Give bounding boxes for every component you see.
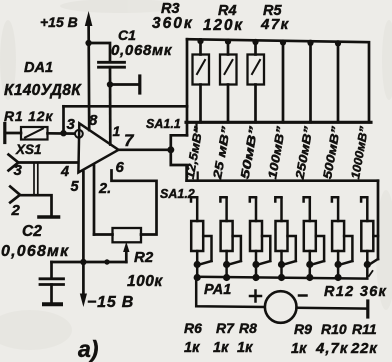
wire contact 5 to R10 xyxy=(309,198,312,221)
wire contact 2 to R7 xyxy=(225,198,228,221)
wire R6 side tap xyxy=(203,236,211,261)
svg-text:3: 3 xyxy=(67,116,76,133)
resistor R5 xyxy=(248,55,265,85)
node bus dot col4 xyxy=(280,39,286,45)
wire riser from compensation line through SA1.1 bar to wiper xyxy=(186,106,189,135)
wire R3 bottom to SA1.1 bar xyxy=(199,85,202,123)
wire column 4 bus to bar xyxy=(282,41,285,123)
wire bus left drop xyxy=(186,39,189,106)
resistor R3 leads xyxy=(199,39,202,54)
svg-text:7: 7 xyxy=(124,131,135,150)
wire R7 side tap xyxy=(233,236,241,261)
node junction dot R9 bottom xyxy=(278,261,285,268)
svg-text:С2: С2 xyxy=(22,223,42,240)
connector XS1 pin 2 arrow xyxy=(10,187,20,203)
tick near R12 bus end xyxy=(369,271,373,276)
wire SA1.1 wiper from output node xyxy=(171,135,187,150)
wire R6 bottom to bus xyxy=(196,251,199,278)
wire R8 side tap xyxy=(262,236,270,261)
meter PA1 xyxy=(265,291,297,323)
ground bar under C2 xyxy=(44,302,61,306)
wire compensation line (pins 1,8) xyxy=(64,105,188,108)
wire op-amp pin5 / -15V rail xyxy=(82,172,85,296)
resistor R10 xyxy=(304,221,316,251)
wire R2 left lead xyxy=(94,233,113,236)
node junction dot R6 bottom xyxy=(194,261,201,268)
switch SA1.2 contact 2 xyxy=(220,197,226,201)
svg-text:360к: 360к xyxy=(152,15,194,32)
node junction dot at +15 rail / C1 branch xyxy=(85,40,91,46)
wire contact 1 to R6 xyxy=(196,198,199,221)
resistor R8 xyxy=(250,221,262,251)
capacitor C1 xyxy=(99,62,125,67)
op-amp U1 triangle xyxy=(78,123,118,172)
wire XS1 pin3 to op-amp noninverting input xyxy=(18,161,78,164)
resistor R3 xyxy=(193,55,210,85)
svg-text:6: 6 xyxy=(116,159,125,176)
switch SA1.1 position labels (rotated) xyxy=(183,125,371,181)
wire meter loop left drop xyxy=(196,277,265,307)
wire double link upper-lower input line (right) xyxy=(37,163,39,196)
node bus dot col5 xyxy=(307,40,313,46)
terminal bar at end of stub xyxy=(138,76,141,93)
resistor R12 xyxy=(361,221,373,251)
meter minus sign xyxy=(299,294,307,297)
svg-text:R11: R11 xyxy=(352,321,377,337)
wire contact 6 to R11 xyxy=(337,198,340,221)
wire meter right lead xyxy=(297,307,368,310)
node +15V arrow xyxy=(85,11,93,26)
svg-text:1к: 1к xyxy=(237,340,253,356)
wire R1 right lead to inverting input xyxy=(48,132,75,135)
svg-text:4: 4 xyxy=(60,164,69,180)
switch SA1.1 contact bar xyxy=(186,121,371,124)
wire XS1 pin2 line xyxy=(20,195,52,215)
svg-text:2.: 2. xyxy=(98,181,111,197)
terminal bar at pin2 wire end xyxy=(39,215,59,219)
wire R10 bottom to bus xyxy=(309,251,312,278)
resistor R6 xyxy=(191,221,203,251)
node junction dot R10 bottom xyxy=(306,261,313,268)
resistor R2 (potentiometer body) xyxy=(113,228,142,242)
wire R11 bottom to bus xyxy=(337,251,340,278)
svg-text:120к: 120к xyxy=(203,17,244,34)
wire contact 7 to R12 xyxy=(366,198,369,221)
resistor R5 leads xyxy=(254,40,257,54)
resistor R11 xyxy=(332,221,344,251)
wire op-amp pin2 down to R2 left xyxy=(93,166,96,235)
wire R9 side tap diagonal xyxy=(284,261,296,265)
wire SA1.2 common right drop xyxy=(377,181,380,259)
wire R10 side tap xyxy=(316,236,324,261)
switch SA1.2 common line xyxy=(187,179,378,182)
switch SA1.2 contact 5 xyxy=(304,197,310,201)
wire C1 bottom down to compensation line and pin 1 of op-amp xyxy=(109,67,112,144)
svg-text:1к: 1к xyxy=(291,341,307,357)
node bus dot col3 xyxy=(252,39,258,45)
svg-text:РА1: РА1 xyxy=(204,282,231,298)
switch SA1.2 contact 1 xyxy=(191,197,197,201)
svg-text:С1: С1 xyxy=(118,27,136,43)
svg-text:100к: 100к xyxy=(127,273,163,290)
wire bottom horizontal C2/rail/wiper xyxy=(52,261,127,264)
meter plus sign xyxy=(250,295,261,298)
resistor R4 diagonal xyxy=(225,60,233,74)
R2 wiper arrow xyxy=(123,242,129,252)
wire contact 4 to R9 xyxy=(280,198,283,221)
wire R8 side tap diagonal xyxy=(258,261,270,265)
svg-text:1к: 1к xyxy=(184,340,200,356)
wire +15V rail down to op-amp top edge xyxy=(87,22,90,130)
svg-text:R2: R2 xyxy=(134,249,154,266)
svg-text:3: 3 xyxy=(14,162,23,179)
switch SA1.2 contact 7 xyxy=(361,197,367,201)
svg-text:0,068мк: 0,068мк xyxy=(111,42,173,59)
node -15V arrow xyxy=(80,294,87,308)
wire R11 side tap xyxy=(344,236,352,261)
node junction dot R8 bottom xyxy=(252,261,259,268)
svg-text:1к: 1к xyxy=(213,340,229,356)
svg-text:2: 2 xyxy=(11,202,21,219)
resistor R4 leads xyxy=(227,40,230,55)
node junction dot R7 bus xyxy=(223,274,230,281)
svg-text:R10: R10 xyxy=(321,321,347,337)
wire R9 side tap xyxy=(288,236,296,261)
svg-text:R9: R9 xyxy=(294,321,312,337)
switch SA1.2 wiper path from output node xyxy=(171,150,187,181)
op-amp input bubble xyxy=(75,130,83,138)
wire vertical from compensation line down to R1 node xyxy=(62,106,65,133)
wire R12 side tap diagonal xyxy=(369,259,378,265)
node junction dot R12 bottom xyxy=(364,261,371,268)
svg-text:SA1.1: SA1.1 xyxy=(146,117,181,131)
svg-text:R6: R6 xyxy=(184,320,202,336)
svg-text:22к: 22к xyxy=(350,340,378,357)
switch SA1.1 wiper tick xyxy=(195,122,197,131)
svg-text:DA1: DA1 xyxy=(24,60,53,76)
svg-text:5: 5 xyxy=(71,179,80,195)
wire R8 bottom to bus xyxy=(255,251,258,278)
wire R10 side tap diagonal xyxy=(312,261,324,265)
svg-text:4,7к: 4,7к xyxy=(315,340,349,357)
wire R4 bottom to SA1.1 bar xyxy=(227,85,230,123)
capacitor C2 xyxy=(40,279,64,285)
wire column 5 bus to bar xyxy=(309,41,312,122)
node junction dot on bottom wire xyxy=(104,259,109,264)
svg-text:0,068мк: 0,068мк xyxy=(1,243,69,260)
svg-text:R7: R7 xyxy=(216,320,235,336)
node bus dot col2 xyxy=(225,39,231,45)
node junction dot R11 bottom xyxy=(335,261,342,268)
wire contact 3 to R8 xyxy=(255,198,258,221)
node output junction dot xyxy=(167,146,174,153)
wire double link upper-lower input line (left) xyxy=(33,163,35,196)
wire meter bus xyxy=(196,277,367,279)
node junction dot R7 bottom xyxy=(223,261,230,268)
switch SA1.2 wiper tick xyxy=(197,173,199,181)
svg-text:а): а) xyxy=(78,336,98,362)
resistor R1 terminal bar xyxy=(3,124,6,143)
switch SA1.2 contact 6 xyxy=(332,197,338,201)
wire column 6 bus to bar xyxy=(337,42,340,123)
node junction dot R8 bus xyxy=(252,274,259,281)
svg-text:−15 В: −15 В xyxy=(87,294,134,311)
wire stub right from C1 bottom junction xyxy=(110,83,140,86)
node bus dot col1 xyxy=(197,38,203,44)
wire from +15 rail to C1 xyxy=(89,43,110,62)
svg-text:К140УД8К: К140УД8К xyxy=(4,82,82,99)
wire R12 side tap xyxy=(373,235,378,238)
node junction dot R11 bus xyxy=(335,274,342,281)
wire op-amp output xyxy=(119,148,172,151)
svg-text:1: 1 xyxy=(113,123,121,139)
resistor R7 xyxy=(221,221,233,251)
wire R7 side tap diagonal xyxy=(229,261,241,265)
wire R9 bottom to bus xyxy=(280,251,283,278)
wire C2 bottom lead xyxy=(50,285,53,303)
svg-text:R12 36к: R12 36к xyxy=(324,284,387,300)
node junction dot R6 bus xyxy=(194,274,201,281)
wire C2 top lead xyxy=(50,262,53,278)
connector XS1 pin 3 arrow xyxy=(9,155,19,171)
svg-text:+15 В: +15 В xyxy=(40,14,78,30)
wire R6 side tap diagonal xyxy=(200,261,212,265)
switch SA1.2 contact 3 xyxy=(250,197,256,201)
svg-text:XS1: XS1 xyxy=(15,142,42,157)
wire R2 right lead and feedback loop to pin 6 xyxy=(112,171,157,235)
svg-text:47к: 47к xyxy=(260,16,290,33)
wire top feedback bus xyxy=(187,39,369,122)
resistor R9 xyxy=(276,221,288,251)
node junction dot R9 bus xyxy=(278,274,285,281)
node junction dot C1 bottom xyxy=(107,81,113,87)
wire R5 bottom to SA1.1 bar xyxy=(254,85,257,123)
resistor R1 xyxy=(21,127,48,140)
resistor R1 diagonal mark xyxy=(25,129,43,138)
svg-text:8: 8 xyxy=(89,112,98,129)
node junction dot R1 / compensation branch xyxy=(60,130,66,136)
svg-text:SA1.2: SA1.2 xyxy=(160,187,195,201)
node bus dot col6 xyxy=(335,40,341,46)
svg-text:R1 12к: R1 12к xyxy=(4,108,53,124)
wire R7 bottom to bus xyxy=(225,251,228,278)
resistor R4 xyxy=(220,55,237,85)
wire R12 bottom to bus xyxy=(366,251,369,278)
wire R2 wiper down xyxy=(125,250,128,262)
resistor R3 diagonal xyxy=(197,60,205,74)
wire R1 left lead xyxy=(5,132,21,135)
switch SA1.2 contact 4 xyxy=(275,197,281,201)
node junction dot -15 rail / bottom wire xyxy=(80,259,86,265)
wire R11 side tap diagonal xyxy=(340,261,352,265)
node junction dot R10 bus xyxy=(306,274,313,281)
resistor R5 diagonal xyxy=(252,60,260,74)
svg-text:R8: R8 xyxy=(239,320,257,336)
terminal bar right of meter xyxy=(366,301,369,317)
